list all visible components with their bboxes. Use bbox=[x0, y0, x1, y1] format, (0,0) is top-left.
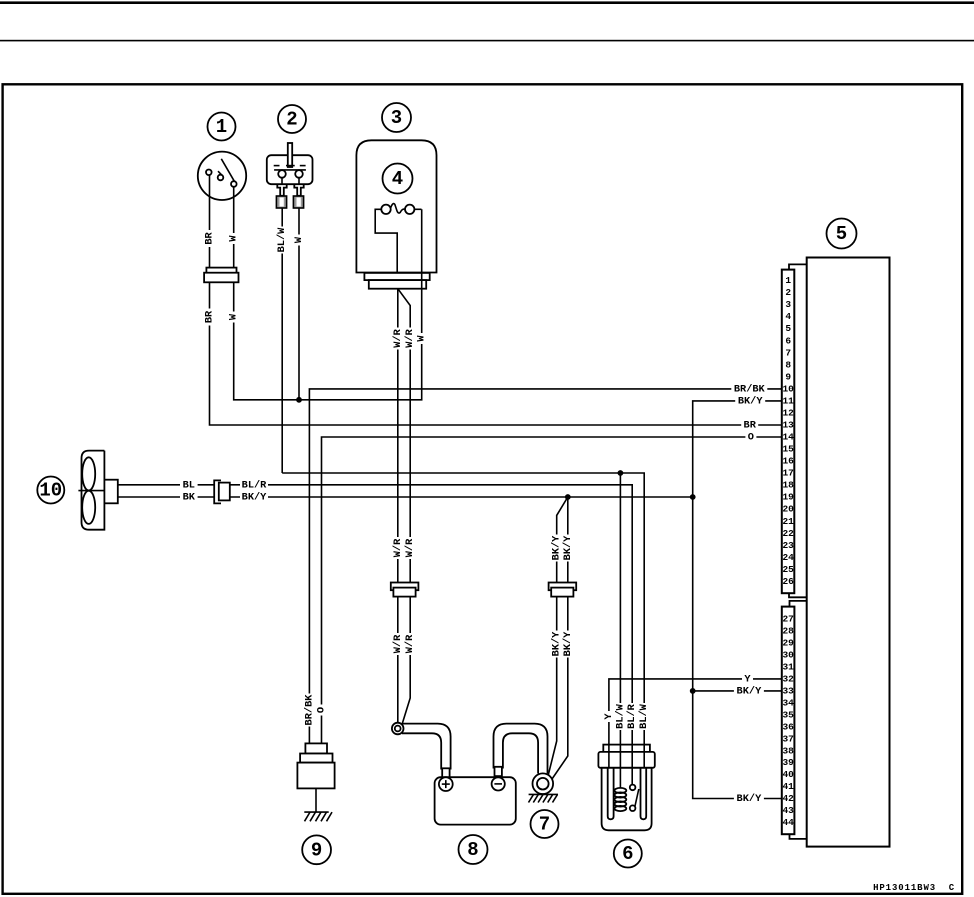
junction dot BK/Y pin33 bbox=[690, 688, 696, 694]
svg-text:BK/Y: BK/Y bbox=[562, 535, 574, 561]
junction dot BL/W net bbox=[618, 470, 624, 476]
label BK/Y fan bbox=[240, 492, 268, 504]
svg-text:5: 5 bbox=[785, 323, 791, 334]
wire O (component 9 to pin 14) bbox=[322, 437, 782, 743]
CDI unit 8 body bbox=[435, 777, 516, 824]
svg-text:41: 41 bbox=[782, 781, 794, 792]
CDI 8 positive terminal bbox=[439, 777, 453, 791]
svg-text:W: W bbox=[416, 335, 428, 342]
label BL/R fan bbox=[240, 479, 268, 491]
connector 5 pin strip 2 (pins 27-44) bbox=[782, 601, 807, 839]
connector on W/R pair bbox=[391, 583, 419, 597]
wire BK (fan to connector) bbox=[118, 496, 214, 498]
svg-text:9: 9 bbox=[311, 839, 322, 861]
relay 6 housing bbox=[598, 745, 654, 831]
relay 6 left prong bbox=[608, 768, 614, 820]
connector 5 pin strip 1 (pins 1-26) bbox=[782, 264, 807, 597]
svg-text:6: 6 bbox=[785, 335, 791, 346]
ground symbol under 9 bbox=[304, 812, 332, 821]
label BL/W relay 1 bbox=[614, 703, 626, 730]
svg-text:21: 21 bbox=[782, 516, 794, 527]
svg-text:BK/Y: BK/Y bbox=[242, 492, 268, 504]
top rule 1 bbox=[0, 1, 974, 4]
wire BK/Y bus (pin 11 / pin 33 / pin 42) bbox=[693, 401, 782, 799]
svg-text:3: 3 bbox=[785, 299, 791, 310]
top rule 2 bbox=[0, 40, 974, 42]
fuse 2 callout circle bbox=[278, 105, 306, 133]
svg-text:BK/Y: BK/Y bbox=[562, 631, 574, 657]
svg-text:8: 8 bbox=[467, 839, 478, 861]
svg-text:5: 5 bbox=[836, 223, 847, 245]
svg-text:19: 19 bbox=[782, 492, 794, 503]
connector on BK/Y pair bbox=[549, 583, 577, 597]
label BR/BK pin 10 bbox=[731, 383, 767, 395]
connector 5 pin numbers 1-26 bbox=[782, 275, 794, 587]
svg-text:25: 25 bbox=[782, 564, 794, 575]
svg-text:3: 3 bbox=[391, 107, 402, 129]
relay 6 coil bbox=[615, 768, 627, 811]
svg-text:37: 37 bbox=[782, 733, 794, 744]
ground eyelet 7 bbox=[533, 773, 554, 794]
svg-text:4: 4 bbox=[785, 311, 791, 322]
svg-text:2: 2 bbox=[286, 109, 297, 131]
svg-text:BK: BK bbox=[183, 492, 196, 504]
svg-text:6: 6 bbox=[622, 843, 633, 865]
coil 3 callout circle bbox=[382, 103, 411, 132]
coil 4 winding symbol bbox=[375, 204, 421, 273]
svg-text:38: 38 bbox=[782, 745, 794, 756]
svg-text:33: 33 bbox=[782, 685, 794, 696]
svg-text:BR: BR bbox=[204, 232, 216, 245]
svg-text:8: 8 bbox=[785, 359, 791, 370]
label W/R low 1 bbox=[392, 633, 404, 655]
svg-text:BR/BK: BR/BK bbox=[734, 383, 766, 395]
svg-text:10: 10 bbox=[39, 480, 62, 502]
junction dot BK/Y at fan line bbox=[565, 494, 571, 500]
ECU connector 5 main body bbox=[807, 258, 890, 847]
label BK/Y pin 42 bbox=[734, 793, 764, 805]
svg-text:W/R: W/R bbox=[392, 538, 404, 557]
svg-text:10: 10 bbox=[782, 383, 794, 394]
svg-text:13: 13 bbox=[782, 420, 794, 431]
relay 6 switch contact bbox=[630, 768, 639, 811]
label BK/Y pin 33 bbox=[734, 685, 764, 697]
svg-text:32: 32 bbox=[782, 673, 794, 684]
svg-text:30: 30 bbox=[782, 649, 794, 660]
svg-text:BR/BK: BR/BK bbox=[303, 694, 315, 726]
label BL/W relay 2 bbox=[638, 703, 650, 730]
svg-text:W/R: W/R bbox=[392, 634, 404, 653]
wire Y (relay to pin 32) bbox=[609, 679, 782, 745]
svg-text:W/R: W/R bbox=[404, 634, 416, 653]
CDI 8 thick lead left bbox=[402, 724, 451, 778]
svg-text:BL/W: BL/W bbox=[276, 227, 288, 253]
label W/R coil 1 bbox=[392, 328, 404, 350]
label BR pin 13 bbox=[741, 420, 758, 432]
wire BR/BK (component 9 to pin 10) bbox=[309, 389, 781, 744]
svg-text:34: 34 bbox=[782, 697, 794, 708]
svg-text:23: 23 bbox=[782, 540, 794, 551]
fan 10 motor bbox=[104, 480, 117, 504]
svg-text:28: 28 bbox=[782, 626, 794, 637]
coil 3 bottom plate 2 bbox=[369, 280, 426, 289]
label BK/Y mid 1 bbox=[551, 535, 563, 562]
svg-text:22: 22 bbox=[782, 528, 794, 539]
svg-text:4: 4 bbox=[392, 168, 403, 190]
eyelet terminal on W/R leads bbox=[392, 723, 404, 735]
fan 10 blades bbox=[78, 457, 104, 524]
svg-text:44: 44 bbox=[782, 817, 794, 828]
wire BL/R (connector to relay) bbox=[230, 485, 632, 745]
svg-text:W/R: W/R bbox=[404, 328, 416, 347]
svg-text:BL: BL bbox=[183, 479, 195, 491]
svg-text:9: 9 bbox=[785, 371, 791, 382]
fuse 2 right terminal bbox=[293, 185, 303, 208]
label BL fan bbox=[180, 479, 198, 491]
svg-text:BK/Y: BK/Y bbox=[738, 395, 764, 407]
svg-text:BR: BR bbox=[744, 420, 757, 432]
svg-text:12: 12 bbox=[782, 408, 794, 419]
label BL/W fuse bbox=[276, 227, 288, 254]
wire W (switch / fuse / coil net) bbox=[234, 187, 422, 400]
label O plug bbox=[316, 705, 328, 716]
svg-text:36: 36 bbox=[782, 721, 794, 732]
svg-text:BK/Y: BK/Y bbox=[737, 793, 763, 805]
label W upper bbox=[228, 233, 240, 244]
svg-text:Y: Y bbox=[603, 713, 615, 720]
label W lower bbox=[228, 312, 240, 323]
svg-text:O: O bbox=[748, 432, 754, 444]
label W fuse bbox=[293, 235, 305, 246]
label W/R coil 2 bbox=[404, 328, 416, 350]
fan 10 callout circle bbox=[37, 477, 64, 504]
label W/R mid 1 bbox=[392, 537, 404, 559]
svg-text:7: 7 bbox=[785, 347, 791, 358]
label O pin 14 bbox=[745, 432, 756, 444]
spark plug 9 body bbox=[297, 743, 334, 812]
svg-text:W/R: W/R bbox=[392, 328, 404, 347]
label BK/Y pin 11 bbox=[735, 395, 765, 407]
label BK fan bbox=[180, 492, 198, 504]
svg-text:BL/R: BL/R bbox=[242, 479, 268, 491]
svg-text:31: 31 bbox=[782, 661, 794, 672]
ground 7 callout circle bbox=[531, 810, 559, 838]
connector 5 pin numbers 27-44 bbox=[782, 614, 794, 829]
label W/R mid 2 bbox=[404, 537, 416, 559]
label Y relay bbox=[603, 711, 615, 722]
svg-text:BK/Y: BK/Y bbox=[737, 685, 763, 697]
ignition switch 1 body bbox=[198, 152, 246, 200]
label BK/Y low 2 bbox=[562, 631, 574, 658]
svg-text:39: 39 bbox=[782, 757, 794, 768]
svg-text:15: 15 bbox=[782, 444, 794, 455]
svg-text:11: 11 bbox=[782, 395, 794, 406]
relay 6 wire stubs inside housing bbox=[609, 745, 644, 768]
label BR lower bbox=[204, 309, 216, 326]
CDI 8 thick lead right bbox=[494, 724, 548, 777]
label BL/R relay bbox=[626, 703, 638, 730]
connector on BR/W pair bbox=[204, 268, 238, 283]
svg-text:BL/W: BL/W bbox=[638, 703, 650, 729]
wire BK/Y (connector to ground eyelet and bus) bbox=[230, 497, 693, 779]
svg-text:27: 27 bbox=[782, 614, 794, 625]
fuse 2 body bbox=[267, 143, 313, 184]
label BR upper bbox=[204, 230, 216, 247]
ignition coil 3 body bbox=[356, 140, 436, 272]
wire W/R right (coil to CDI eyelet) bbox=[398, 289, 410, 725]
svg-text:W: W bbox=[293, 236, 305, 243]
svg-text:W: W bbox=[228, 235, 240, 242]
label W coil bbox=[416, 333, 428, 344]
svg-text:18: 18 bbox=[782, 480, 794, 491]
junction dot BK/Y at bus bbox=[690, 494, 696, 500]
svg-text:1: 1 bbox=[216, 116, 227, 138]
wire BL/W (fuse to relay) bbox=[282, 208, 644, 745]
svg-text:42: 42 bbox=[782, 793, 794, 804]
svg-text:BL/W: BL/W bbox=[614, 703, 626, 729]
ECU 5 callout circle bbox=[827, 219, 857, 249]
svg-text:24: 24 bbox=[782, 552, 794, 563]
wire BR (switch to pin 13) bbox=[210, 175, 782, 425]
svg-text:HP13011BW3 C: HP13011BW3 C bbox=[873, 883, 955, 893]
svg-text:26: 26 bbox=[782, 576, 794, 587]
switch 1 callout circle bbox=[208, 113, 236, 141]
svg-text:29: 29 bbox=[782, 638, 794, 649]
svg-text:20: 20 bbox=[782, 504, 794, 515]
svg-text:40: 40 bbox=[782, 769, 794, 780]
svg-text:Y: Y bbox=[744, 673, 751, 685]
svg-text:BR: BR bbox=[204, 310, 216, 323]
ground symbol under 7 bbox=[529, 794, 559, 802]
coil 4 callout circle bbox=[383, 164, 413, 194]
junction dot W net bbox=[296, 397, 302, 403]
svg-text:O: O bbox=[316, 707, 328, 713]
label W/R low 2 bbox=[404, 633, 416, 655]
label Y pin 32 bbox=[742, 673, 753, 685]
svg-text:14: 14 bbox=[782, 432, 794, 443]
wire W/R left (coil to CDI eyelet) bbox=[397, 289, 399, 724]
svg-text:43: 43 bbox=[782, 805, 794, 816]
label BK/Y low 1 bbox=[551, 631, 563, 658]
svg-text:W/R: W/R bbox=[404, 538, 416, 557]
svg-text:2: 2 bbox=[785, 287, 791, 298]
svg-text:35: 35 bbox=[782, 709, 794, 720]
CDI 8 callout circle bbox=[459, 835, 488, 864]
CDI 8 negative terminal bbox=[492, 777, 505, 790]
fan connector pair bbox=[214, 480, 230, 503]
label BR/BK plug bbox=[303, 694, 315, 727]
wire BL (fan to connector) bbox=[118, 484, 214, 486]
fan 10 shroud bbox=[82, 451, 105, 530]
relay 6 right prong bbox=[641, 768, 647, 820]
svg-text:16: 16 bbox=[782, 456, 794, 467]
svg-text:W: W bbox=[228, 313, 240, 320]
coil 3 bottom plate 1 bbox=[364, 273, 429, 280]
svg-text:17: 17 bbox=[782, 468, 794, 479]
svg-text:7: 7 bbox=[539, 814, 550, 836]
spark plug 9 callout circle bbox=[302, 835, 331, 864]
fuse 2 left terminal bbox=[276, 185, 286, 208]
svg-text:1: 1 bbox=[785, 275, 791, 286]
relay 6 callout circle bbox=[614, 840, 642, 868]
label BK/Y mid 2 bbox=[562, 535, 574, 562]
svg-text:BL/R: BL/R bbox=[626, 703, 638, 729]
